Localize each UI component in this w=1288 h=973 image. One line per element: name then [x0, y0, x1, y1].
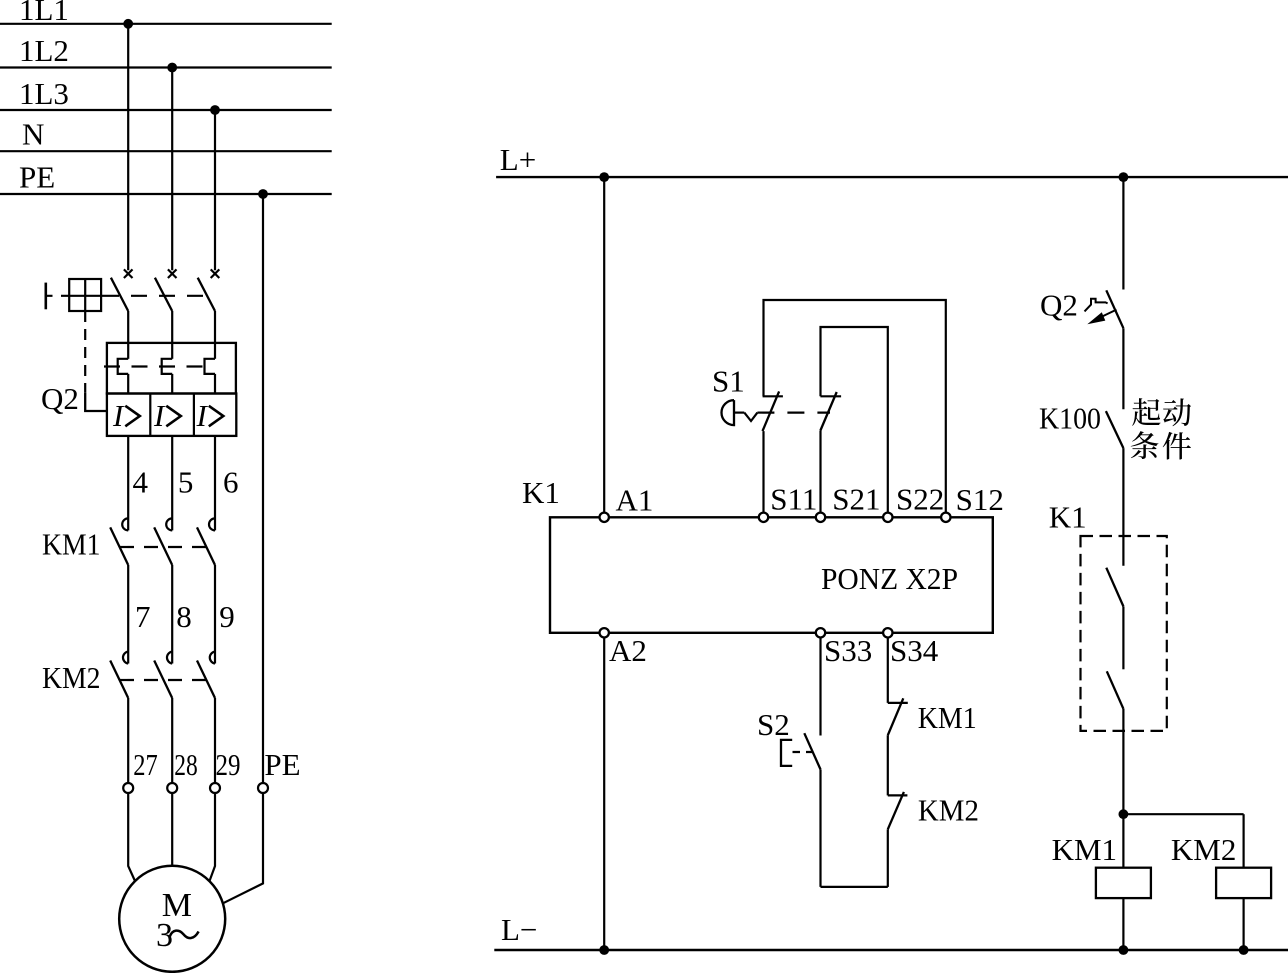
svg-text:Q2: Q2 — [41, 381, 79, 416]
wire drop pole 1 — [127, 24, 129, 270]
coil KM1 — [1096, 868, 1151, 898]
label start-condition line2 (tiao jian) — [1131, 431, 1191, 459]
svg-text:7: 7 — [135, 599, 151, 634]
wire pole 2 KM2 to terminal — [171, 698, 173, 783]
wire K100 to K1 box — [1122, 448, 1124, 566]
terminal A1 circle — [600, 513, 609, 522]
breaker Q2 pole 3 blade — [198, 278, 215, 311]
wire S34 down — [887, 638, 889, 703]
terminal S21 circle — [816, 513, 825, 522]
wire motor lead 3 — [210, 793, 216, 881]
wire between KM1 KM2 aux — [887, 735, 889, 795]
svg-text:KM1: KM1 — [1052, 832, 1117, 867]
wire pole 2 KM1 to KM2 — [171, 565, 173, 664]
wire drop pole 3 — [214, 110, 216, 270]
S1 contact 1 blade — [763, 391, 780, 431]
overload I> row box — [107, 394, 236, 436]
svg-text:S22: S22 — [896, 482, 944, 517]
contactor KM2 pole 2 fixed contact arc — [167, 652, 172, 664]
junction L+ / A1 — [599, 172, 609, 182]
terminal S12 circle — [941, 513, 950, 522]
terminal circle 3 — [210, 783, 220, 793]
wire S2 down — [819, 769, 821, 887]
motor label tilde — [170, 931, 199, 939]
svg-text:S21: S21 — [832, 482, 880, 517]
svg-text:KM2: KM2 — [1171, 832, 1236, 867]
terminal S34 circle — [883, 628, 892, 637]
trip linkage dashed — [104, 365, 208, 367]
terminal S11 circle — [759, 513, 768, 522]
K1 contact 2 blade — [1107, 671, 1124, 709]
breaker Q2 pole 2 blade — [155, 278, 172, 311]
svg-text:KM1: KM1 — [918, 700, 977, 735]
Q2 trip arrow head — [1087, 312, 1105, 324]
contactor KM1 pole 3 blade — [197, 527, 215, 565]
bus N — [0, 150, 332, 152]
svg-text:KM2: KM2 — [918, 793, 979, 828]
wire pole 1 to KM1 — [127, 436, 129, 531]
operator box — [69, 279, 101, 311]
overload > symbol 2 — [166, 406, 181, 427]
contactor KM2 pole 1 blade — [110, 661, 128, 699]
S1 contact 2 blade — [820, 392, 836, 431]
wire pole 2 below blade — [171, 311, 173, 343]
operator box cross horizontal — [62, 295, 103, 297]
KM1 linkage dashed — [120, 546, 211, 548]
S1 mushroom head — [721, 400, 734, 425]
wire K1 box to coils — [1122, 709, 1124, 868]
overload > symbol 1 — [125, 406, 140, 427]
svg-text:L+: L+ — [500, 142, 536, 177]
KM2 linkage dashed — [120, 679, 211, 681]
bus 1L1 — [0, 23, 332, 25]
trip unit pole 2 latch hook — [162, 359, 173, 374]
contactor KM2 pole 2 blade — [154, 661, 172, 699]
svg-text:L−: L− — [501, 912, 537, 947]
svg-text:PE: PE — [19, 160, 55, 195]
wire PE drop — [262, 194, 264, 783]
trip unit pole 1 latch hook — [118, 359, 129, 374]
svg-text:1L2: 1L2 — [19, 33, 69, 68]
overload row divider 1 — [149, 394, 151, 436]
label start-condition line1 (qi dong) — [1132, 398, 1191, 426]
operator handle bar — [44, 283, 47, 310]
trip unit pole 3 upper stub — [214, 343, 216, 359]
wire drop pole 2 — [171, 68, 173, 271]
trip unit pole 2 lower stub — [171, 374, 173, 394]
operator linkage dash left — [47, 295, 63, 297]
contactor KM2 pole 3 blade — [197, 661, 215, 699]
contactor KM1 pole 1 fixed contact arc — [122, 518, 128, 530]
S1 spring zigzag — [744, 413, 757, 421]
S1 contact 1 seat — [763, 395, 783, 397]
terminal circle 1 — [123, 783, 133, 793]
terminal circle 4 — [258, 783, 268, 793]
wire pole 3 to KM1 — [214, 436, 216, 531]
S2 push operator bracket — [781, 740, 792, 766]
svg-text:PONZ X2P: PONZ X2P — [821, 561, 958, 596]
wire S21 loop — [821, 327, 888, 513]
breaker Q2 pole 1 blade — [111, 278, 128, 311]
terminal S33 circle — [816, 628, 825, 637]
Q2 aux contact blade — [1106, 290, 1123, 328]
coil KM2 — [1216, 868, 1271, 898]
wire Q2 elbow — [85, 393, 107, 411]
contactor KM2 pole 3 fixed contact arc — [210, 652, 215, 664]
junction bus tap 2 — [167, 63, 177, 73]
svg-text:1L3: 1L3 — [19, 76, 69, 111]
svg-text:S11: S11 — [770, 482, 817, 517]
overload row divider 2 — [193, 394, 195, 436]
svg-text:28: 28 — [174, 747, 198, 782]
svg-text:S2: S2 — [757, 707, 790, 742]
wire S33 down — [819, 638, 821, 736]
wire S1-2 to S21 — [819, 431, 821, 513]
svg-text:29: 29 — [216, 747, 241, 782]
wire S11 loop — [764, 300, 946, 513]
svg-text:PE: PE — [264, 747, 300, 782]
wire motor lead 2 — [171, 793, 173, 866]
svg-text:K1: K1 — [1049, 500, 1087, 535]
wire pole 3 KM1 to KM2 — [214, 565, 216, 664]
svg-text:1L1: 1L1 — [19, 0, 69, 27]
KM2 aux contact seat — [888, 794, 908, 796]
wire KM2 aux down — [887, 829, 889, 887]
wire KM2 coil upper — [1242, 814, 1244, 868]
rail L+ — [496, 176, 1288, 178]
breaker Q2 pole 1 x-terminal — [124, 269, 133, 278]
bus PE — [0, 193, 332, 195]
contactor KM1 pole 2 fixed contact arc — [166, 518, 172, 530]
contactor KM1 pole 2 blade — [154, 527, 172, 565]
overload > symbol 3 — [209, 406, 224, 427]
wire A2 to L- — [603, 638, 605, 951]
svg-text:Q2: Q2 — [1040, 288, 1078, 323]
wire pole 2 to KM1 — [171, 436, 173, 531]
wire pole 1 KM1 to KM2 — [127, 565, 129, 664]
svg-text:S12: S12 — [956, 482, 1004, 517]
Q2 trip arrow shaft — [1099, 310, 1117, 318]
svg-text:K1: K1 — [522, 475, 560, 510]
S2 linkage dashed — [793, 751, 818, 753]
junction bus tap 1 — [123, 19, 133, 29]
breaker Q2 trip-unit box — [107, 343, 236, 394]
terminal circle 2 — [167, 783, 177, 793]
trip unit pole 1 upper stub — [127, 343, 129, 359]
safety relay K1 box — [550, 517, 993, 633]
svg-text:27: 27 — [133, 747, 158, 782]
motor M circle — [119, 866, 225, 972]
svg-text:9: 9 — [219, 599, 235, 634]
wire pole 3 below blade — [214, 311, 216, 343]
junction coil branch — [1119, 809, 1129, 819]
wire branch to KM2 coil — [1123, 813, 1243, 815]
breaker Q2 pole 2 x-terminal — [168, 269, 177, 278]
svg-text:S34: S34 — [890, 633, 939, 668]
junction bus tap 3 — [210, 105, 220, 115]
svg-text:KM1: KM1 — [42, 527, 101, 562]
svg-text:A2: A2 — [609, 633, 647, 668]
wire between K1 contacts — [1122, 606, 1124, 669]
contactor KM1 pole 3 fixed contact arc — [209, 518, 215, 530]
wire pole 3 KM2 to terminal — [214, 698, 216, 783]
linkage dashed vertical — [84, 311, 86, 393]
wire S1-1 to S11 — [762, 431, 764, 513]
wire Q2 to K100 — [1122, 328, 1124, 409]
contactor KM1 pole 1 blade — [110, 527, 128, 565]
wire KM1 coil to L- — [1122, 898, 1124, 950]
junction L- / KM2 coil — [1239, 945, 1249, 955]
K100 contact blade — [1106, 411, 1124, 448]
trip unit pole 3 lower stub — [214, 374, 216, 394]
trip unit pole 2 upper stub — [171, 343, 173, 359]
S1 linkage dashed — [757, 412, 830, 414]
trip unit pole 1 lower stub — [127, 374, 129, 394]
svg-text:N: N — [22, 117, 44, 152]
junction L+ / Q2 branch — [1119, 172, 1129, 182]
wire pole 1 KM2 to terminal — [127, 698, 129, 783]
S2 blade — [804, 733, 820, 769]
terminal S22 circle — [883, 513, 892, 522]
svg-text:K100: K100 — [1039, 401, 1101, 436]
KM1 aux contact blade — [888, 698, 904, 735]
wire Q2 branch upper — [1122, 177, 1124, 289]
svg-text:5: 5 — [178, 464, 194, 499]
KM1 aux contact seat — [888, 702, 908, 704]
mechanical linkage dashed to poles — [103, 295, 208, 297]
wire motor lead 1 — [128, 793, 135, 881]
svg-text:I: I — [112, 398, 125, 433]
svg-text:S33: S33 — [824, 633, 872, 668]
svg-text:S1: S1 — [712, 364, 745, 399]
wire motor PE lead — [223, 793, 263, 903]
trip unit pole 3 latch hook — [205, 359, 216, 374]
wire bottom link — [821, 886, 888, 888]
svg-text:4: 4 — [133, 464, 149, 499]
bus 1L3 — [0, 109, 332, 111]
S1 contact 2 seat — [820, 395, 841, 397]
KM2 aux contact blade — [888, 792, 904, 829]
wire pole 1 below blade — [127, 311, 129, 343]
bus 1L2 — [0, 66, 332, 68]
K1 contact 1 blade — [1106, 568, 1123, 607]
svg-text:6: 6 — [223, 464, 239, 499]
svg-text:I: I — [196, 398, 209, 433]
wire L+ to A1 — [603, 177, 605, 513]
breaker Q2 pole 3 x-terminal — [211, 269, 220, 278]
S1 stem — [734, 412, 744, 414]
svg-text:I: I — [153, 398, 166, 433]
operator box cross vertical — [84, 279, 86, 311]
svg-text:8: 8 — [176, 599, 192, 634]
svg-text:KM2: KM2 — [42, 660, 101, 695]
svg-text:A1: A1 — [616, 483, 654, 518]
contactor KM2 pole 1 fixed contact arc — [123, 652, 128, 664]
terminal A2 circle — [600, 628, 609, 637]
junction L- / A2 — [599, 945, 609, 955]
rail L- — [494, 949, 1288, 951]
Q2 breaker-function pennant — [1085, 299, 1108, 312]
K1 dashed box — [1081, 536, 1167, 731]
wire KM2 coil to L- — [1242, 898, 1244, 950]
junction L- / KM1 coil — [1119, 945, 1129, 955]
junction bus tap 4 — [258, 189, 268, 199]
